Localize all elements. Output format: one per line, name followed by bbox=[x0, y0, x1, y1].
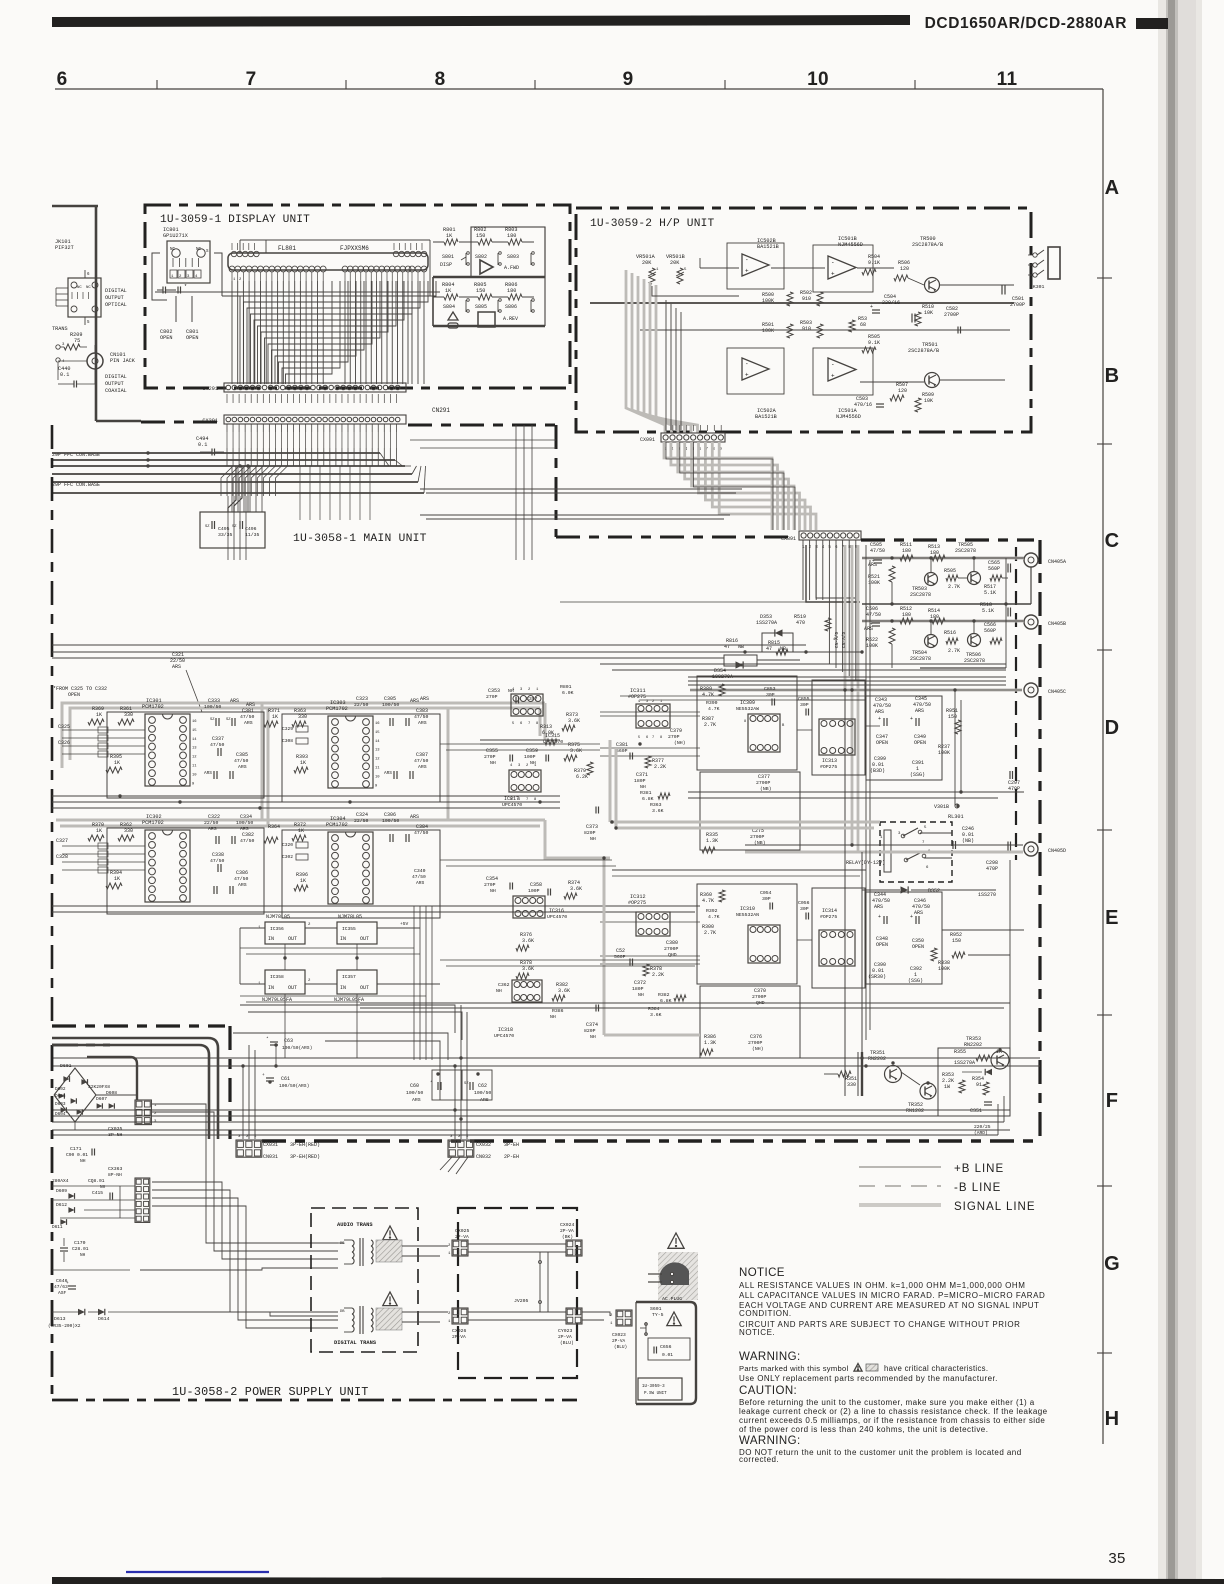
connector CX023 2P-VA (BLU) bbox=[616, 1310, 632, 1326]
svg-text:OUTPUT: OUTPUT bbox=[105, 295, 124, 301]
gray highway filter to relay bbox=[610, 821, 880, 824]
svg-text:C374: C374 bbox=[586, 1022, 598, 1028]
svg-text:1K: 1K bbox=[272, 714, 278, 720]
svg-text:DO NOT return the unit to the: DO NOT return the unit to the customer u… bbox=[739, 1448, 1022, 1457]
svg-text:SIGNAL LINE: SIGNAL LINE bbox=[954, 1201, 1036, 1213]
gray highway DAC top bbox=[62, 703, 545, 768]
svg-text:BA1521B: BA1521B bbox=[755, 414, 777, 420]
svg-text:180P: 180P bbox=[632, 986, 644, 992]
svg-text:ARS: ARS bbox=[244, 720, 253, 726]
S601 switch contacts bbox=[645, 1322, 647, 1336]
P.SW unit sub-box 1U-3059-3 bbox=[638, 1378, 682, 1400]
svg-text:2P-VA: 2P-VA bbox=[558, 1334, 572, 1340]
svg-text:C322: C322 bbox=[208, 814, 220, 820]
svg-text:100/50(ARS): 100/50(ARS) bbox=[279, 1083, 309, 1089]
rail wires into relay bbox=[688, 791, 1024, 793]
svg-text:1K: 1K bbox=[300, 878, 306, 884]
AC plug symbol bbox=[659, 1262, 689, 1285]
svg-text:NH: NH bbox=[638, 992, 644, 998]
svg-text:ARS: ARS bbox=[238, 764, 247, 770]
svg-text:20K: 20K bbox=[670, 260, 680, 266]
svg-text:33/35: 33/35 bbox=[218, 532, 233, 538]
rows C-D vertical link wires bbox=[1005, 558, 1007, 668]
svg-text:CX091: CX091 bbox=[640, 437, 655, 443]
svg-text:3.6K: 3.6K bbox=[522, 938, 534, 944]
H/P unit black feeder bundle bbox=[665, 300, 667, 430]
svg-text:C323: C323 bbox=[356, 696, 368, 702]
svg-text:H: H bbox=[1105, 1408, 1120, 1430]
wire mesh regulator area horizontals bbox=[240, 947, 414, 949]
svg-text:CQ8.01: CQ8.01 bbox=[88, 1178, 105, 1184]
legend +B LINE sample bbox=[859, 1166, 941, 1168]
svg-text:C372: C372 bbox=[634, 980, 646, 986]
svg-text:2SC2878: 2SC2878 bbox=[910, 656, 931, 662]
svg-text:WARNING:: WARNING: bbox=[739, 1435, 801, 1447]
svg-text:2SC2878: 2SC2878 bbox=[955, 548, 976, 554]
svg-text:CY291: CY291 bbox=[202, 386, 218, 392]
CN101 pin jack bbox=[87, 353, 103, 369]
IC312 DIP bbox=[636, 912, 670, 936]
svg-text:TRANS: TRANS bbox=[52, 326, 68, 332]
svg-text:UPC4570: UPC4570 bbox=[547, 914, 567, 920]
svg-text:D601: D601 bbox=[60, 1063, 72, 1069]
svg-text:R386: R386 bbox=[552, 1008, 564, 1014]
svg-text:2P-VA: 2P-VA bbox=[452, 1334, 466, 1340]
svg-text:1U-3059-2 H/P UNIT: 1U-3059-2 H/P UNIT bbox=[590, 218, 715, 230]
CX291 pin wires down with signal-name smudge bbox=[226, 424, 228, 432]
svg-text:910: 910 bbox=[802, 296, 811, 302]
transformer unit dashed box bbox=[311, 1208, 418, 1352]
svg-text:2.7K: 2.7K bbox=[704, 722, 716, 728]
svg-text:IC310: IC310 bbox=[740, 906, 755, 912]
DAC cluster box 4 outline bbox=[282, 830, 440, 918]
svg-text:1U-3058-1 MAIN UNIT: 1U-3058-1 MAIN UNIT bbox=[293, 533, 427, 545]
svg-text:2700P: 2700P bbox=[748, 1040, 763, 1046]
wire IC801 left leg bbox=[152, 253, 167, 300]
svg-text:NH: NH bbox=[80, 1158, 86, 1164]
svg-text:S804: S804 bbox=[443, 304, 455, 310]
svg-text:8: 8 bbox=[744, 720, 746, 724]
D-row mid horizontal wires bbox=[612, 869, 866, 871]
svg-text:AUDIO TRANS: AUDIO TRANS bbox=[337, 1222, 373, 1228]
svg-text:D603: D603 bbox=[55, 1102, 66, 1107]
svg-text:47/50: 47/50 bbox=[210, 742, 225, 748]
svg-text:10K: 10K bbox=[924, 398, 933, 404]
svg-text:C370: C370 bbox=[754, 988, 766, 994]
svg-text:2700P: 2700P bbox=[944, 312, 959, 318]
svg-text:2700P: 2700P bbox=[1010, 302, 1025, 308]
svg-text:9.1K: 9.1K bbox=[868, 260, 880, 266]
svg-text:NE5532AN: NE5532AN bbox=[736, 912, 759, 918]
main unit dashed border bottom horizontal bbox=[262, 1139, 1040, 1143]
lower rail wires bbox=[52, 905, 700, 907]
right page-edge scan band bbox=[1158, 0, 1202, 1584]
IC314 OP275 DIP lower bbox=[819, 930, 855, 966]
wires CX026 to CY023 bbox=[468, 1311, 566, 1313]
svg-text:ARS: ARS bbox=[418, 720, 427, 726]
svg-text:2.2K: 2.2K bbox=[652, 972, 664, 978]
svg-text:D611: D611 bbox=[52, 1225, 63, 1230]
wires TR block bbox=[902, 1062, 938, 1070]
wire display-unit ground rail bbox=[155, 291, 440, 293]
svg-text:150: 150 bbox=[948, 714, 957, 720]
svg-text:(NH): (NH) bbox=[674, 740, 686, 746]
svg-text:100K: 100K bbox=[938, 750, 950, 756]
row C emitter rail bbox=[862, 603, 1031, 605]
svg-text:-: - bbox=[831, 361, 835, 368]
svg-text:ARS: ARS bbox=[420, 696, 429, 702]
svg-text:OUT: OUT bbox=[360, 985, 369, 991]
svg-text:NC: NC bbox=[86, 286, 91, 290]
switch block feed wires bbox=[677, 241, 679, 243]
svg-text:47/50: 47/50 bbox=[234, 758, 249, 764]
svg-text:CX363: CX363 bbox=[108, 1166, 123, 1172]
svg-text:CN031: CN031 bbox=[263, 1154, 278, 1160]
svg-text:IN: IN bbox=[268, 985, 274, 991]
connector CX063 8P-NH bbox=[135, 1178, 150, 1222]
svg-text:6.8K: 6.8K bbox=[642, 796, 654, 802]
svg-text:2SC2878: 2SC2878 bbox=[964, 658, 985, 664]
svg-text:CX025: CX025 bbox=[455, 1228, 470, 1234]
svg-text:1K: 1K bbox=[298, 828, 304, 834]
svg-text:SZ: SZ bbox=[205, 525, 210, 529]
svg-text:RL301: RL301 bbox=[948, 814, 964, 820]
svg-text:OPEN: OPEN bbox=[68, 692, 80, 698]
top header bar bbox=[52, 15, 910, 27]
svg-text:A.REV: A.REV bbox=[503, 316, 518, 322]
blue pen mark bottom-left bbox=[126, 1571, 269, 1573]
wire opamp outputs to TR500 bbox=[857, 267, 894, 269]
svg-text:100/50(ARS): 100/50(ARS) bbox=[282, 1045, 312, 1051]
svg-text:5: 5 bbox=[638, 736, 640, 740]
filter cluster box upper bbox=[866, 696, 942, 780]
svg-text:P.SW UNIT: P.SW UNIT bbox=[644, 1392, 667, 1396]
svg-text:F: F bbox=[1106, 1090, 1119, 1112]
svg-text:47/50: 47/50 bbox=[240, 838, 255, 844]
svg-text:R505: R505 bbox=[944, 568, 956, 574]
R815 47 NB box bbox=[762, 633, 793, 652]
FL801 top pin number labels bbox=[231, 243, 233, 250]
svg-text:C377: C377 bbox=[758, 774, 770, 780]
filter block frame right upper bbox=[812, 680, 865, 775]
IC356 regulator IN OUT bbox=[265, 922, 305, 944]
svg-text:ARS: ARS bbox=[172, 664, 181, 670]
svg-text:C359: C359 bbox=[526, 748, 538, 754]
svg-text:C054: C054 bbox=[760, 890, 772, 896]
row C wire black bbox=[862, 557, 1024, 559]
svg-text:#OP275: #OP275 bbox=[820, 914, 837, 920]
svg-text:C358: C358 bbox=[530, 882, 542, 888]
PSU thick feed to CX035 bbox=[87, 1057, 137, 1100]
PSU thick feed path outer bbox=[52, 1038, 218, 1139]
svg-text:3.6K: 3.6K bbox=[570, 886, 582, 892]
svg-text:C386: C386 bbox=[236, 870, 248, 876]
headphone unit 1U-3059-2 border bbox=[576, 208, 1031, 432]
svg-text:S803: S803 bbox=[507, 254, 519, 260]
svg-text:C656: C656 bbox=[660, 1344, 672, 1350]
svg-text:2700P: 2700P bbox=[664, 946, 679, 952]
main unit dashed border top-mid segment bbox=[408, 424, 556, 427]
mid column connector wires bbox=[480, 739, 560, 741]
svg-text:820P: 820P bbox=[584, 830, 596, 836]
TR501 transistor bbox=[925, 373, 940, 388]
svg-text:2.7K: 2.7K bbox=[948, 584, 960, 590]
svg-text:C056: C056 bbox=[798, 900, 810, 906]
svg-text:3.6K: 3.6K bbox=[570, 748, 582, 754]
svg-text:RN1202: RN1202 bbox=[906, 1108, 924, 1114]
svg-text:D352: D352 bbox=[928, 888, 940, 894]
svg-text:CONDITION.: CONDITION. bbox=[739, 1309, 792, 1318]
switch block lower frame bbox=[432, 277, 434, 326]
svg-text:3.6K: 3.6K bbox=[568, 718, 580, 724]
bottom rail wires F row bbox=[52, 1109, 1010, 1111]
svg-text:R381: R381 bbox=[640, 790, 652, 796]
svg-text:FJPXXSM6: FJPXXSM6 bbox=[340, 245, 369, 252]
svg-text:2P-VA: 2P-VA bbox=[560, 1228, 574, 1234]
svg-text:560P: 560P bbox=[984, 628, 996, 634]
capacitor C804 bbox=[177, 287, 179, 294]
svg-text:1K: 1K bbox=[114, 876, 120, 882]
svg-text:1SS270A: 1SS270A bbox=[756, 620, 777, 626]
svg-text:CX035: CX035 bbox=[108, 1126, 123, 1132]
svg-text:NC: NC bbox=[77, 286, 82, 290]
signal bundle black overlay wires bbox=[666, 442, 773, 530]
display unit 1U-3059-1 border bbox=[145, 205, 570, 388]
svg-text:22/50: 22/50 bbox=[354, 818, 369, 824]
svg-text:+: + bbox=[831, 271, 835, 278]
JK101 optical connector body bbox=[68, 278, 101, 317]
svg-text:have critical characteristics.: have critical characteristics. bbox=[884, 1364, 988, 1373]
audio trans secondary wires bbox=[402, 1245, 448, 1247]
input wires IC302 bbox=[62, 845, 145, 847]
svg-text:120: 120 bbox=[898, 388, 907, 394]
svg-text:C327: C327 bbox=[56, 838, 68, 844]
svg-text:CX024: CX024 bbox=[560, 1222, 575, 1228]
right ruler line bbox=[1102, 89, 1104, 1444]
connector CX026 2P-VA bbox=[452, 1308, 468, 1324]
svg-text:NH: NH bbox=[640, 784, 646, 790]
IC301 pin stubs bbox=[195, 717, 197, 719]
svg-text:D613: D613 bbox=[54, 1316, 66, 1322]
svg-text:OPEN: OPEN bbox=[876, 740, 888, 746]
svg-text:270P: 270P bbox=[668, 734, 680, 740]
svg-text:4.7K: 4.7K bbox=[708, 914, 720, 920]
svg-text:R384: R384 bbox=[648, 1006, 660, 1012]
svg-text:16: 16 bbox=[375, 722, 380, 726]
wire mesh vertical black pair near relay bbox=[954, 690, 956, 806]
svg-text:(BK): (BK) bbox=[562, 1234, 573, 1240]
IC502A BA1521B op-amp lower bbox=[742, 358, 769, 380]
long rail wire through R815 bbox=[52, 651, 762, 653]
svg-text:PCM1702: PCM1702 bbox=[142, 820, 164, 826]
C656 0.01 capacitor bbox=[648, 1338, 690, 1360]
relay coil bbox=[884, 830, 891, 872]
wire mesh horizontal pair above TR block bbox=[360, 1002, 1010, 1004]
svg-text:ARS: ARS bbox=[208, 826, 217, 832]
svg-text:D609: D609 bbox=[56, 1188, 67, 1194]
svg-text:ARS: ARS bbox=[915, 708, 924, 714]
svg-text:S801: S801 bbox=[442, 254, 454, 260]
svg-text:CN405A: CN405A bbox=[1048, 559, 1066, 565]
svg-text:47/50: 47/50 bbox=[870, 548, 885, 554]
svg-text:C853: C853 bbox=[764, 686, 776, 692]
TR506 transistor bbox=[968, 634, 981, 647]
resistor vertical row C bbox=[889, 566, 895, 582]
gray highway vertical between DAC clusters bbox=[261, 703, 264, 820]
svg-text:C355: C355 bbox=[486, 748, 498, 754]
svg-text:150: 150 bbox=[476, 288, 485, 294]
svg-text:DIGITAL TRANS: DIGITAL TRANS bbox=[334, 1340, 377, 1346]
svg-text:ARS: ARS bbox=[384, 771, 392, 776]
svg-text:120: 120 bbox=[900, 266, 909, 272]
right ruler ticks bbox=[1097, 277, 1112, 279]
svg-text:S805: S805 bbox=[475, 304, 487, 310]
svg-text:3.6K: 3.6K bbox=[652, 808, 664, 814]
svg-text:C170: C170 bbox=[74, 1240, 86, 1246]
H/P feedback wires left bbox=[652, 286, 739, 296]
svg-text:+: + bbox=[910, 914, 913, 920]
coupling cap row D bbox=[1007, 608, 1009, 617]
svg-text:14: 14 bbox=[375, 740, 380, 744]
svg-text:IN: IN bbox=[340, 985, 346, 991]
svg-text:E: E bbox=[1105, 907, 1119, 929]
svg-text:15: 15 bbox=[375, 731, 380, 735]
svg-text:100/50: 100/50 bbox=[204, 704, 221, 710]
svg-text:15: 15 bbox=[192, 729, 197, 733]
IC315 UPC4570 op-amp DIP bbox=[511, 694, 543, 716]
svg-text:150: 150 bbox=[952, 938, 961, 944]
svg-text:9.1K: 9.1K bbox=[868, 340, 880, 346]
svg-text:NOTICE: NOTICE bbox=[739, 1267, 785, 1279]
svg-text:C354: C354 bbox=[486, 876, 498, 882]
svg-text:13: 13 bbox=[192, 747, 197, 751]
digital trans secondary wires bbox=[402, 1311, 448, 1313]
wire mesh filter area horizontals bbox=[600, 715, 700, 717]
svg-text:10: 10 bbox=[192, 773, 197, 777]
input wires IC301 bbox=[62, 729, 145, 731]
svg-text:C351: C351 bbox=[970, 1108, 982, 1114]
svg-text:IC314: IC314 bbox=[822, 908, 837, 914]
svg-text:DIGITAL: DIGITAL bbox=[105, 288, 127, 294]
svg-text:3P-EH(RED): 3P-EH(RED) bbox=[290, 1142, 320, 1148]
svg-text:CX031: CX031 bbox=[263, 1142, 278, 1148]
svg-text:6.0K: 6.0K bbox=[542, 730, 554, 736]
svg-text:C60: C60 bbox=[410, 1083, 419, 1089]
svg-text:7: 7 bbox=[652, 736, 654, 740]
wire mesh mid horizontals left of CX391 bbox=[420, 488, 742, 490]
svg-text:+5V: +5V bbox=[400, 921, 409, 927]
heavy rail under switch row1 bbox=[433, 276, 545, 278]
svg-text:91: 91 bbox=[976, 1082, 982, 1088]
svg-text:1U-3058-2 POWER SUPPLY UNIT: 1U-3058-2 POWER SUPPLY UNIT bbox=[172, 1385, 369, 1399]
svg-text:+B LINE: +B LINE bbox=[954, 1163, 1004, 1175]
power supply unit dashed border left bbox=[51, 1045, 54, 1400]
svg-text:13: 13 bbox=[375, 749, 380, 753]
svg-text:1K: 1K bbox=[114, 760, 120, 766]
main unit dashed border left vertical bbox=[51, 425, 54, 1026]
top ruler line bbox=[55, 88, 1103, 90]
connector CX025 2P-VA bbox=[452, 1240, 468, 1256]
filter block frame upper bbox=[697, 676, 797, 770]
IC358 regulator IN OUT bbox=[265, 970, 305, 994]
CN405B output jack bbox=[1024, 615, 1038, 629]
long verticals from CX291 left pins bbox=[231, 466, 233, 512]
svg-text:CN405D: CN405D bbox=[1048, 848, 1066, 854]
svg-text:10: 10 bbox=[807, 69, 829, 90]
wire lower channel out bbox=[860, 381, 924, 383]
svg-text:8P-NH: 8P-NH bbox=[108, 1172, 122, 1178]
wires into C495 box bbox=[228, 466, 236, 512]
bridge rectifier D601-D604 diamond bbox=[54, 1068, 96, 1122]
svg-text:12: 12 bbox=[192, 756, 197, 760]
svg-text:3P-EH(RED): 3P-EH(RED) bbox=[290, 1154, 320, 1160]
svg-text:NJM4556D: NJM4556D bbox=[836, 414, 861, 420]
thick vertical bus at TR block bbox=[861, 1052, 863, 1096]
svg-text:C371: C371 bbox=[636, 772, 648, 778]
svg-text:330: 330 bbox=[298, 714, 307, 720]
svg-text:47/50: 47/50 bbox=[414, 758, 429, 764]
svg-text:180: 180 bbox=[930, 550, 939, 556]
IC318 UPC4570 op-amp DIP bottom bbox=[512, 980, 542, 1002]
svg-text:PCM1702: PCM1702 bbox=[326, 706, 348, 712]
PSU thick feed path inner bbox=[52, 1045, 209, 1139]
svg-text:OUT: OUT bbox=[360, 936, 369, 942]
svg-text:Before returning the unit to t: Before returning the unit to the custome… bbox=[739, 1398, 1035, 1407]
svg-text:30P: 30P bbox=[762, 896, 771, 902]
svg-text:-: - bbox=[745, 257, 749, 264]
digital transformer primary coil bbox=[352, 1308, 354, 1314]
power supply unit dashed border top stub bbox=[52, 1044, 110, 1047]
svg-text:NH: NH bbox=[490, 888, 496, 894]
svg-text:R382: R382 bbox=[658, 992, 670, 998]
main unit dashed border notch vertical bbox=[555, 425, 558, 537]
svg-text:470/16: 470/16 bbox=[854, 402, 872, 408]
svg-text:3.6K: 3.6K bbox=[650, 1012, 662, 1018]
svg-text:(BLU): (BLU) bbox=[614, 1345, 627, 1350]
svg-text:470: 470 bbox=[796, 620, 805, 626]
svg-text:(NB): (NB) bbox=[754, 840, 766, 846]
IC317 UPC4570 op-amp DIP bbox=[509, 770, 541, 792]
svg-text:2.2K: 2.2K bbox=[654, 764, 666, 770]
main unit dashed border notch horizontal to CX391 bbox=[556, 536, 797, 539]
svg-text:IN: IN bbox=[268, 936, 274, 942]
switch block upper frame bbox=[471, 227, 545, 277]
CN405A output jack bbox=[1024, 553, 1038, 567]
svg-text:(SSG): (SSG) bbox=[908, 978, 923, 984]
DAC cluster box 2 outline bbox=[282, 714, 440, 802]
svg-text:C376: C376 bbox=[750, 1034, 762, 1040]
coil left hook wires audio bbox=[338, 1242, 344, 1244]
svg-text:+: + bbox=[745, 268, 749, 275]
second rail wire bbox=[640, 329, 1010, 331]
svg-text:7: 7 bbox=[528, 722, 530, 726]
svg-text:C325: C325 bbox=[58, 724, 70, 730]
svg-text:10K: 10K bbox=[924, 310, 933, 316]
IC316 UPC4570 op-amp DIP lower bbox=[513, 896, 545, 918]
D613 D614 diodes bbox=[78, 1309, 85, 1315]
svg-text:C61: C61 bbox=[281, 1076, 290, 1082]
svg-text:OPEN: OPEN bbox=[876, 942, 888, 948]
bottom page bar bbox=[52, 1577, 1224, 1584]
svg-text:11: 11 bbox=[997, 69, 1018, 90]
svg-text:-B LINE: -B LINE bbox=[954, 1182, 1001, 1194]
svg-text:R390: R390 bbox=[706, 700, 718, 706]
svg-text:C306: C306 bbox=[384, 812, 396, 818]
svg-text:CN032: CN032 bbox=[476, 1154, 491, 1160]
svg-text:C337: C337 bbox=[212, 736, 224, 742]
svg-text:SZ: SZ bbox=[210, 718, 215, 722]
svg-text:6.0K: 6.0K bbox=[562, 690, 574, 696]
